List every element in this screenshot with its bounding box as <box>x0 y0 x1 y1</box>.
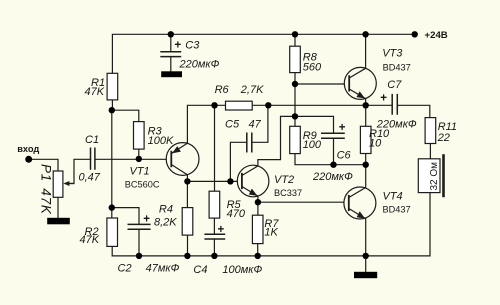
wire VT1 emitter up and feedback line to C7 <box>187 105 225 143</box>
capacitor C1 <box>79 134 101 184</box>
wire input to P1 top <box>29 159 58 171</box>
wire R8 top <box>294 34 296 46</box>
node R1-R3-R2 <box>109 107 115 113</box>
wire C3 stub <box>170 34 172 71</box>
svg-text:C5: C5 <box>225 119 240 131</box>
node +24V terminal <box>412 31 418 37</box>
svg-text:2,7K: 2,7K <box>240 84 264 96</box>
svg-text:BC560C: BC560C <box>125 179 160 189</box>
wire C1 right to VT1 base <box>95 158 166 160</box>
svg-text:560: 560 <box>303 61 322 73</box>
node C3 top <box>168 31 174 37</box>
transistor VT4 BD437 (NPN) <box>344 187 411 219</box>
node VT2 emitter <box>255 199 261 205</box>
svg-text:220мкФ: 220мкФ <box>376 118 417 130</box>
resistor R1 <box>85 73 118 100</box>
svg-text:47K: 47K <box>39 188 54 215</box>
svg-text:VT1: VT1 <box>130 166 150 178</box>
node R8-VT3 base <box>292 81 298 87</box>
node R10-VT4 collector <box>363 162 369 168</box>
svg-text:VT4: VT4 <box>383 191 403 203</box>
wire VT3 collector to rail <box>365 34 367 68</box>
wire C4 bottom to rail <box>213 239 215 256</box>
ground under P1 <box>47 218 70 225</box>
svg-text:220мкФ: 220мкФ <box>179 59 220 71</box>
svg-text:VT3: VT3 <box>382 48 403 60</box>
node VT3 collector top <box>362 31 368 37</box>
svg-text:C1: C1 <box>85 134 99 146</box>
wire C5 right rise <box>252 105 268 142</box>
node R2-C2 <box>109 204 115 210</box>
ground main <box>354 272 377 278</box>
wire R3 bottom to base line <box>138 149 140 159</box>
svg-text:C6: C6 <box>337 150 352 162</box>
resistor R3 <box>134 122 174 150</box>
svg-text:+: + <box>218 224 225 236</box>
resistor R7 <box>252 215 279 243</box>
wire R10 bottom to VT4 collector node <box>365 154 367 188</box>
transistor VT2 BC337 (NPN) <box>237 165 302 198</box>
svg-text:BC337: BC337 <box>274 188 302 198</box>
speaker 32 Ohm <box>418 154 443 197</box>
potentiometer P1 <box>39 164 75 215</box>
svg-text:BD437: BD437 <box>383 63 411 73</box>
resistor R2 <box>80 218 118 246</box>
capacitor C6 <box>312 122 353 183</box>
resistor R5 <box>209 191 246 220</box>
wire C6 bottom <box>333 138 335 165</box>
wire VT2 collector path <box>258 116 295 165</box>
svg-text:R4: R4 <box>159 204 173 216</box>
wire VT2 emitter to R7 and VT4 base <box>258 196 344 215</box>
node VT4 emitter ground <box>363 253 369 259</box>
svg-text:470: 470 <box>227 208 246 220</box>
wire node A to R3 top <box>112 110 139 121</box>
node R6 left <box>211 102 217 108</box>
wire R8 bottom to VT3 base, down to R9 <box>295 73 344 127</box>
transistor VT1 BC560C (PNP) <box>125 143 199 190</box>
capacitor C7 <box>376 79 417 130</box>
svg-text:вход: вход <box>17 144 39 154</box>
svg-text:100K: 100K <box>148 135 174 147</box>
wire bottom rail <box>112 193 430 256</box>
svg-text:100: 100 <box>303 139 322 151</box>
svg-text:C3: C3 <box>185 40 200 52</box>
svg-text:1K: 1K <box>264 226 278 238</box>
wire P1 wiper to C1 <box>65 159 90 183</box>
capacitor C3 <box>160 40 219 71</box>
svg-text:R6: R6 <box>215 84 230 96</box>
resistor R11 <box>425 118 457 144</box>
wire VT4 emitter to rail <box>365 219 367 256</box>
node C5-VT2 base <box>227 178 233 184</box>
wire C7 right to R11 <box>397 105 430 117</box>
svg-text:8,2K: 8,2K <box>154 216 177 228</box>
svg-text:10: 10 <box>369 138 382 150</box>
capacitor C5 <box>225 119 262 153</box>
wire top rail +24V <box>112 34 414 73</box>
node C4 rail <box>211 253 217 259</box>
transistor VT3 BD437 (NPN) <box>344 48 410 100</box>
wire R6 left node down to R5 <box>214 105 216 191</box>
resistor R4 <box>154 204 193 236</box>
node VT1 collector <box>184 178 190 184</box>
ground under C3 <box>161 71 182 77</box>
wire node A down to node B (R2 top) <box>111 110 113 218</box>
svg-text:47K: 47K <box>80 234 100 246</box>
wire P1 bottom to ground <box>57 197 59 218</box>
svg-text:+: + <box>339 122 346 134</box>
svg-text:P1: P1 <box>39 164 54 182</box>
svg-text:VT2: VT2 <box>274 174 294 186</box>
wire VT3 emitter to node out <box>365 99 367 106</box>
wire node B to C2 top <box>112 208 139 225</box>
node input terminal <box>25 156 32 163</box>
resistor R9 <box>290 126 322 153</box>
svg-text:+: + <box>175 40 182 52</box>
svg-text:47K: 47K <box>85 86 105 98</box>
svg-text:32 Ом: 32 Ом <box>429 162 440 191</box>
svg-text:C2: C2 <box>118 263 132 275</box>
wire R6 right to VT3 emitter node to C7 left <box>252 104 392 106</box>
capacitor C4 <box>193 224 262 276</box>
wire node out to R10 <box>365 105 367 126</box>
svg-text:+: + <box>143 214 150 226</box>
svg-text:47: 47 <box>249 119 262 131</box>
wire C5 left drop <box>230 142 246 181</box>
svg-text:+: + <box>380 93 387 105</box>
wire R5 bottom to C4 <box>213 218 215 234</box>
resistor R10 <box>360 126 390 153</box>
svg-text:0,47: 0,47 <box>79 172 101 184</box>
node R4 rail <box>184 253 190 259</box>
node C2 rail <box>136 253 142 259</box>
svg-text:C4: C4 <box>193 264 207 276</box>
wire ground stub main <box>365 256 367 271</box>
wire R9 bottom to C6 bottom line <box>295 154 366 165</box>
svg-text:47мкФ: 47мкФ <box>146 263 180 275</box>
wire R11 bottom to speaker <box>429 144 431 159</box>
wire R7 bottom to rail <box>257 244 259 256</box>
node R9 top <box>292 113 298 119</box>
node R3 base <box>136 156 142 162</box>
wire R4 <box>186 181 188 256</box>
wire R2 bottom to bottom rail <box>111 246 113 256</box>
wire VT1 collector line to VT2 base <box>187 175 237 182</box>
resistor R8 <box>290 46 322 73</box>
svg-text:100мкФ: 100мкФ <box>222 264 262 276</box>
svg-text:22: 22 <box>437 132 450 144</box>
node R7 rail <box>255 253 261 259</box>
svg-text:BD437: BD437 <box>383 205 411 215</box>
svg-text:+24В: +24В <box>425 30 448 41</box>
svg-text:C7: C7 <box>387 79 402 91</box>
wire C2 bottom to ground rail <box>138 229 140 256</box>
wire node R9/C6 to C6 top <box>295 116 334 133</box>
svg-text:220мкФ: 220мкФ <box>312 171 353 183</box>
resistor R6 <box>215 84 264 110</box>
node C6 bottom <box>330 162 336 168</box>
capacitor C2 <box>118 214 180 275</box>
node VT3 emitter out <box>363 102 369 108</box>
wire R1 bottom to node A <box>111 100 113 110</box>
node R6 right <box>265 102 271 108</box>
node R8 top <box>292 31 298 37</box>
